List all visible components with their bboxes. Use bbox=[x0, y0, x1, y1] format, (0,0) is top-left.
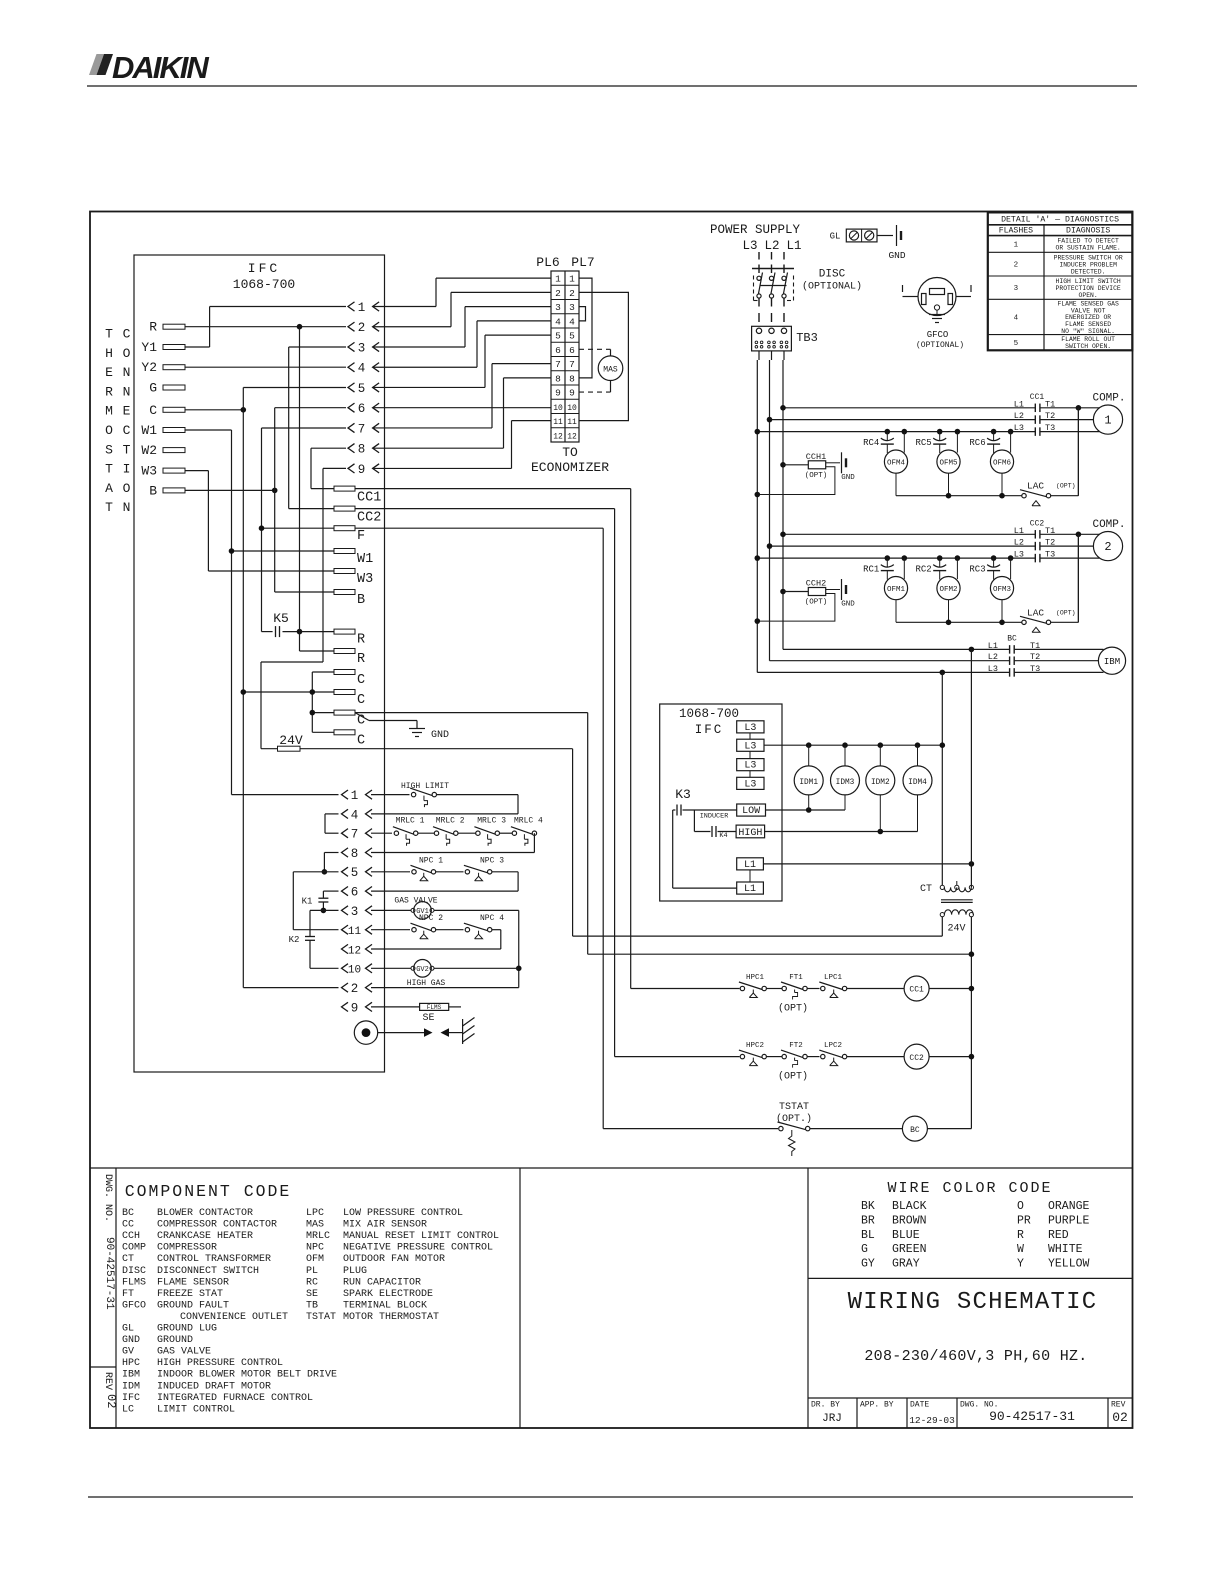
svg-text:E: E bbox=[105, 365, 113, 380]
svg-text:K3: K3 bbox=[675, 787, 691, 802]
svg-text:PL7: PL7 bbox=[571, 255, 594, 270]
svg-text:GV: GV bbox=[122, 1347, 134, 1358]
svg-text:LPC1: LPC1 bbox=[824, 974, 843, 982]
svg-text:L1: L1 bbox=[1014, 399, 1024, 409]
svg-text:GND: GND bbox=[431, 730, 449, 741]
svg-text:RC: RC bbox=[306, 1277, 318, 1288]
svg-text:W1: W1 bbox=[141, 423, 157, 438]
svg-text:6: 6 bbox=[351, 886, 359, 900]
svg-text:MRLC 1: MRLC 1 bbox=[396, 817, 425, 826]
svg-text:IBM: IBM bbox=[1104, 657, 1120, 667]
svg-text:MRLC 3: MRLC 3 bbox=[477, 817, 506, 826]
svg-text:10: 10 bbox=[567, 404, 577, 413]
svg-text:L3: L3 bbox=[744, 741, 756, 752]
svg-text:T: T bbox=[105, 327, 113, 342]
svg-text:9: 9 bbox=[351, 1001, 359, 1015]
svg-text:FLAME SENSOR: FLAME SENSOR bbox=[157, 1277, 229, 1288]
svg-text:9: 9 bbox=[569, 388, 575, 399]
svg-text:ECONOMIZER: ECONOMIZER bbox=[531, 460, 609, 475]
svg-text:FT1: FT1 bbox=[789, 974, 803, 982]
svg-text:1: 1 bbox=[351, 789, 359, 803]
svg-text:FLMS: FLMS bbox=[122, 1277, 146, 1288]
svg-text:RC6: RC6 bbox=[969, 438, 985, 448]
svg-text:12: 12 bbox=[567, 432, 577, 441]
svg-text:IDM2: IDM2 bbox=[871, 779, 890, 787]
svg-text:PLUG: PLUG bbox=[343, 1266, 367, 1277]
svg-text:4: 4 bbox=[351, 808, 359, 822]
svg-text:WIRE COLOR CODE: WIRE COLOR CODE bbox=[887, 1180, 1052, 1197]
svg-text:GY: GY bbox=[861, 1258, 875, 1271]
svg-text:E: E bbox=[123, 404, 131, 419]
svg-text:11: 11 bbox=[553, 418, 563, 427]
svg-text:11: 11 bbox=[567, 418, 577, 427]
svg-text:L2: L2 bbox=[988, 652, 998, 662]
svg-text:OPEN.: OPEN. bbox=[1079, 292, 1098, 299]
svg-text:LPC: LPC bbox=[306, 1208, 324, 1219]
svg-text:REV: REV bbox=[102, 1372, 113, 1390]
svg-text:DISC: DISC bbox=[122, 1266, 146, 1277]
svg-text:A: A bbox=[105, 481, 113, 496]
svg-text:1: 1 bbox=[569, 274, 575, 285]
svg-text:Y: Y bbox=[1017, 1258, 1024, 1271]
svg-text:4: 4 bbox=[555, 316, 561, 327]
svg-text:HIGH: HIGH bbox=[738, 828, 762, 839]
svg-text:L2: L2 bbox=[1014, 538, 1024, 548]
svg-text:GRAY: GRAY bbox=[892, 1258, 920, 1271]
svg-text:S: S bbox=[105, 442, 113, 457]
svg-text:OFM1: OFM1 bbox=[887, 586, 906, 594]
svg-text:G: G bbox=[149, 381, 157, 396]
svg-text:TSTAT: TSTAT bbox=[306, 1312, 336, 1323]
svg-text:FLASHES: FLASHES bbox=[999, 227, 1033, 236]
svg-text:5: 5 bbox=[1014, 340, 1019, 348]
svg-text:CONTROL TRANSFORMER: CONTROL TRANSFORMER bbox=[157, 1254, 271, 1265]
svg-text:HIGH GAS: HIGH GAS bbox=[407, 979, 446, 988]
svg-text:MIX AIR SENSOR: MIX AIR SENSOR bbox=[343, 1220, 427, 1231]
svg-text:DATE: DATE bbox=[910, 1401, 929, 1410]
svg-text:MAS: MAS bbox=[603, 366, 618, 375]
svg-text:1068-700: 1068-700 bbox=[233, 277, 295, 292]
svg-text:GROUND LUG: GROUND LUG bbox=[157, 1324, 217, 1335]
svg-text:GV2: GV2 bbox=[416, 966, 429, 974]
svg-text:6: 6 bbox=[569, 345, 575, 356]
svg-text:CC2: CC2 bbox=[357, 511, 381, 526]
svg-text:W2: W2 bbox=[141, 443, 157, 458]
svg-text:COMP: COMP bbox=[122, 1243, 146, 1254]
svg-text:RC2: RC2 bbox=[915, 565, 931, 575]
svg-text:POWER SUPPLY: POWER SUPPLY bbox=[710, 223, 801, 237]
svg-text:T: T bbox=[105, 462, 113, 477]
svg-text:CRANKCASE HEATER: CRANKCASE HEATER bbox=[157, 1231, 253, 1242]
svg-text:R: R bbox=[357, 633, 365, 648]
svg-text:PURPLE: PURPLE bbox=[1048, 1214, 1090, 1227]
svg-text:O: O bbox=[1017, 1200, 1024, 1213]
svg-text:K4: K4 bbox=[719, 832, 727, 840]
svg-text:ORANGE: ORANGE bbox=[1048, 1200, 1090, 1213]
svg-text:DISCONNECT SWITCH: DISCONNECT SWITCH bbox=[157, 1266, 259, 1277]
svg-text:L1: L1 bbox=[1014, 526, 1024, 536]
svg-text:REV: REV bbox=[1111, 1401, 1126, 1410]
svg-text:2: 2 bbox=[569, 288, 575, 299]
svg-text:TO: TO bbox=[562, 445, 578, 460]
svg-text:C: C bbox=[357, 673, 365, 688]
svg-text:IFC: IFC bbox=[248, 261, 280, 276]
svg-text:6: 6 bbox=[358, 402, 366, 416]
svg-text:(OPTIONAL): (OPTIONAL) bbox=[916, 341, 964, 350]
svg-text:8: 8 bbox=[351, 847, 359, 861]
svg-text:Y1: Y1 bbox=[141, 340, 157, 355]
svg-text:GROUND FAULT: GROUND FAULT bbox=[157, 1300, 229, 1311]
svg-text:RUN CAPACITOR: RUN CAPACITOR bbox=[343, 1277, 421, 1288]
svg-text:L3: L3 bbox=[1014, 423, 1024, 433]
svg-text:2: 2 bbox=[555, 288, 561, 299]
svg-text:90-42517-31: 90-42517-31 bbox=[989, 1409, 1075, 1424]
svg-text:LOW PRESSURE CONTROL: LOW PRESSURE CONTROL bbox=[343, 1208, 463, 1219]
svg-text:R: R bbox=[1017, 1229, 1024, 1242]
svg-text:CC1: CC1 bbox=[357, 491, 381, 506]
svg-text:90-42517-31: 90-42517-31 bbox=[103, 1237, 115, 1310]
svg-text:CC: CC bbox=[122, 1220, 134, 1231]
svg-text:C: C bbox=[123, 327, 131, 342]
svg-text:5: 5 bbox=[358, 382, 366, 396]
svg-text:L3: L3 bbox=[742, 239, 757, 253]
svg-text:DAIKIN: DAIKIN bbox=[112, 50, 209, 85]
svg-text:CC2: CC2 bbox=[909, 1054, 924, 1063]
svg-text:NEGATIVE PRESSURE CONTROL: NEGATIVE PRESSURE CONTROL bbox=[343, 1243, 493, 1254]
svg-text:R: R bbox=[149, 320, 157, 335]
svg-text:DR. BY: DR. BY bbox=[811, 1401, 840, 1410]
svg-text:MRLC: MRLC bbox=[306, 1231, 330, 1242]
svg-text:LOW: LOW bbox=[742, 806, 760, 817]
svg-text:NO "W" SIGNAL.: NO "W" SIGNAL. bbox=[1061, 328, 1115, 335]
svg-text:(OPTIONAL): (OPTIONAL) bbox=[802, 281, 862, 293]
svg-text:GND: GND bbox=[122, 1335, 140, 1346]
svg-text:INTEGRATED FURNACE CONTROL: INTEGRATED FURNACE CONTROL bbox=[157, 1393, 313, 1404]
svg-text:IBM: IBM bbox=[122, 1370, 140, 1381]
svg-text:W: W bbox=[1017, 1243, 1024, 1256]
svg-text:1: 1 bbox=[555, 274, 561, 285]
svg-text:L3: L3 bbox=[1014, 550, 1024, 560]
svg-text:B: B bbox=[149, 483, 157, 498]
svg-text:CC1: CC1 bbox=[1030, 393, 1045, 402]
svg-text:DWG. NO.: DWG. NO. bbox=[102, 1174, 113, 1222]
svg-text:L2: L2 bbox=[1014, 411, 1024, 421]
svg-text:RED: RED bbox=[1048, 1229, 1069, 1242]
svg-text:(OPT): (OPT) bbox=[1056, 483, 1076, 490]
svg-text:GREEN: GREEN bbox=[892, 1243, 927, 1256]
svg-text:BL: BL bbox=[861, 1229, 875, 1242]
svg-text:O: O bbox=[105, 423, 113, 438]
svg-text:M: M bbox=[105, 404, 113, 419]
svg-text:FREEZE STAT: FREEZE STAT bbox=[157, 1289, 223, 1300]
svg-text:K1: K1 bbox=[302, 897, 313, 907]
svg-text:DETECTED.: DETECTED. bbox=[1071, 268, 1106, 275]
svg-text:NPC 4: NPC 4 bbox=[480, 914, 504, 923]
svg-text:OUTDOOR FAN MOTOR: OUTDOOR FAN MOTOR bbox=[343, 1254, 445, 1265]
svg-text:IFC: IFC bbox=[695, 723, 724, 737]
svg-text:7: 7 bbox=[569, 359, 575, 370]
svg-text:N: N bbox=[123, 384, 131, 399]
svg-text:NPC 1: NPC 1 bbox=[419, 856, 443, 865]
svg-text:10: 10 bbox=[348, 965, 361, 977]
svg-text:FT2: FT2 bbox=[789, 1042, 803, 1050]
svg-text:GND: GND bbox=[888, 250, 905, 261]
svg-text:L3: L3 bbox=[744, 723, 756, 734]
svg-text:GL: GL bbox=[122, 1324, 134, 1335]
svg-text:F: F bbox=[357, 529, 365, 544]
svg-text:BLOWER CONTACTOR: BLOWER CONTACTOR bbox=[157, 1208, 253, 1219]
svg-text:24V: 24V bbox=[947, 924, 965, 935]
svg-text:L3: L3 bbox=[988, 664, 998, 674]
svg-text:2: 2 bbox=[351, 982, 359, 996]
svg-text:COMP.: COMP. bbox=[1092, 519, 1125, 531]
svg-text:PR: PR bbox=[1017, 1214, 1031, 1227]
svg-text:MAS: MAS bbox=[306, 1220, 324, 1231]
svg-text:R: R bbox=[357, 652, 365, 667]
svg-text:RC1: RC1 bbox=[863, 565, 879, 575]
svg-text:MRLC 2: MRLC 2 bbox=[436, 817, 465, 826]
svg-text:L3: L3 bbox=[744, 761, 756, 772]
svg-text:N: N bbox=[123, 365, 131, 380]
svg-text:N: N bbox=[123, 500, 131, 515]
svg-text:HPC1: HPC1 bbox=[746, 974, 765, 982]
svg-text:SWITCH OPEN.: SWITCH OPEN. bbox=[1065, 343, 1111, 350]
svg-text:02: 02 bbox=[104, 1394, 118, 1408]
svg-text:O: O bbox=[123, 481, 131, 496]
svg-text:DISC: DISC bbox=[819, 269, 846, 281]
svg-text:TB3: TB3 bbox=[796, 331, 818, 345]
svg-text:7: 7 bbox=[358, 422, 366, 436]
svg-text:TERMINAL BLOCK: TERMINAL BLOCK bbox=[343, 1300, 427, 1311]
svg-text:L1: L1 bbox=[744, 884, 756, 895]
svg-text:H: H bbox=[105, 346, 113, 361]
svg-text:WHITE: WHITE bbox=[1048, 1243, 1083, 1256]
svg-text:K2: K2 bbox=[289, 935, 300, 945]
svg-text:NPC: NPC bbox=[306, 1243, 324, 1254]
svg-text:I: I bbox=[123, 462, 131, 477]
svg-text:GND: GND bbox=[841, 601, 855, 609]
svg-text:2: 2 bbox=[358, 321, 366, 335]
svg-text:W3: W3 bbox=[357, 572, 373, 587]
svg-text:9: 9 bbox=[358, 463, 366, 477]
svg-text:G: G bbox=[861, 1243, 868, 1256]
svg-text:CT: CT bbox=[920, 884, 932, 895]
svg-text:OR SUSTAIN FLAME.: OR SUSTAIN FLAME. bbox=[1056, 245, 1121, 252]
svg-text:5: 5 bbox=[569, 331, 575, 342]
svg-text:GFCO: GFCO bbox=[927, 330, 949, 340]
svg-text:HPC2: HPC2 bbox=[746, 1042, 764, 1050]
svg-text:WIRING SCHEMATIC: WIRING SCHEMATIC bbox=[848, 1289, 1098, 1316]
svg-text:12: 12 bbox=[348, 945, 361, 957]
svg-text:4: 4 bbox=[1014, 314, 1019, 322]
svg-text:11: 11 bbox=[348, 926, 362, 938]
svg-text:W1: W1 bbox=[357, 552, 373, 567]
svg-text:OFM3: OFM3 bbox=[993, 586, 1012, 594]
svg-text:6: 6 bbox=[555, 345, 561, 356]
svg-text:L1: L1 bbox=[786, 239, 801, 253]
svg-text:LAC: LAC bbox=[1027, 481, 1044, 492]
svg-text:BC: BC bbox=[122, 1208, 134, 1219]
svg-text:MANUAL RESET LIMIT CONTROL: MANUAL RESET LIMIT CONTROL bbox=[343, 1231, 499, 1242]
svg-text:IDM3: IDM3 bbox=[836, 779, 855, 787]
svg-text:TB: TB bbox=[306, 1300, 318, 1311]
svg-text:GND: GND bbox=[841, 474, 855, 482]
svg-text:HPC: HPC bbox=[122, 1358, 140, 1369]
svg-text:B: B bbox=[357, 593, 365, 608]
svg-text:T: T bbox=[123, 442, 131, 457]
svg-text:COMPRESSOR: COMPRESSOR bbox=[157, 1243, 217, 1254]
svg-text:IFC: IFC bbox=[122, 1393, 140, 1404]
svg-text:8: 8 bbox=[555, 373, 561, 384]
svg-text:DETAIL 'A' — DIAGNOSTICS: DETAIL 'A' — DIAGNOSTICS bbox=[1001, 215, 1119, 225]
svg-text:TSTAT: TSTAT bbox=[779, 1102, 809, 1113]
svg-text:GAS VALVE: GAS VALVE bbox=[157, 1347, 211, 1358]
svg-text:LIMIT CONTROL: LIMIT CONTROL bbox=[157, 1404, 235, 1415]
svg-text:7: 7 bbox=[351, 828, 359, 842]
svg-text:IDM1: IDM1 bbox=[799, 779, 818, 787]
svg-text:1: 1 bbox=[1014, 241, 1019, 249]
svg-text:OFM6: OFM6 bbox=[993, 460, 1012, 468]
svg-text:L1: L1 bbox=[744, 860, 756, 871]
svg-text:COMP.: COMP. bbox=[1092, 392, 1125, 404]
svg-text:COMPRESSOR CONTACTOR: COMPRESSOR CONTACTOR bbox=[157, 1220, 277, 1231]
svg-text:12-29-03: 12-29-03 bbox=[909, 1415, 955, 1426]
svg-text:5: 5 bbox=[351, 866, 359, 880]
svg-text:BC: BC bbox=[1007, 635, 1017, 644]
svg-text:RC4: RC4 bbox=[863, 438, 879, 448]
svg-text:BC: BC bbox=[910, 1126, 920, 1135]
svg-text:208-230/460V,3 PH,60 HZ.: 208-230/460V,3 PH,60 HZ. bbox=[864, 1348, 1087, 1365]
svg-text:GL: GL bbox=[830, 232, 841, 242]
svg-text:9: 9 bbox=[555, 388, 561, 399]
svg-text:CONVENIENCE OUTLET: CONVENIENCE OUTLET bbox=[180, 1312, 288, 1323]
svg-text:LAC: LAC bbox=[1027, 607, 1044, 618]
svg-text:NPC 2: NPC 2 bbox=[419, 914, 443, 923]
svg-text:L1: L1 bbox=[988, 641, 998, 651]
svg-text:BLUE: BLUE bbox=[892, 1229, 920, 1242]
svg-text:C: C bbox=[357, 693, 365, 708]
svg-text:5: 5 bbox=[555, 331, 561, 342]
svg-text:W3: W3 bbox=[141, 464, 157, 479]
svg-text:CC1: CC1 bbox=[909, 986, 924, 995]
svg-text:L2: L2 bbox=[764, 239, 779, 253]
svg-text:(OPT): (OPT) bbox=[805, 472, 828, 480]
svg-text:K5: K5 bbox=[273, 611, 289, 626]
svg-text:FT: FT bbox=[122, 1289, 134, 1300]
svg-text:GROUND: GROUND bbox=[157, 1335, 193, 1346]
svg-text:3: 3 bbox=[358, 341, 366, 355]
svg-text:LC: LC bbox=[122, 1404, 134, 1415]
svg-text:10: 10 bbox=[553, 404, 563, 413]
svg-text:8: 8 bbox=[358, 443, 366, 457]
svg-text:CC2: CC2 bbox=[1030, 519, 1045, 528]
svg-text:YELLOW: YELLOW bbox=[1048, 1258, 1090, 1271]
svg-text:L3: L3 bbox=[744, 779, 756, 790]
svg-text:BROWN: BROWN bbox=[892, 1214, 927, 1227]
svg-text:INDOOR BLOWER MOTOR BELT DRIVE: INDOOR BLOWER MOTOR BELT DRIVE bbox=[157, 1370, 337, 1381]
svg-text:SE: SE bbox=[422, 1013, 434, 1024]
svg-text:NPC 3: NPC 3 bbox=[480, 856, 504, 865]
svg-text:T: T bbox=[105, 500, 113, 515]
svg-text:HIGH PRESSURE CONTROL: HIGH PRESSURE CONTROL bbox=[157, 1358, 283, 1369]
svg-text:INDUCER: INDUCER bbox=[700, 813, 729, 821]
svg-text:GFCO: GFCO bbox=[122, 1300, 146, 1311]
svg-text:7: 7 bbox=[555, 359, 561, 370]
svg-text:IDM: IDM bbox=[122, 1381, 140, 1392]
svg-text:BLACK: BLACK bbox=[892, 1200, 927, 1213]
svg-text:4: 4 bbox=[358, 362, 366, 376]
svg-text:OFM5: OFM5 bbox=[939, 460, 958, 468]
svg-text:PL: PL bbox=[306, 1266, 318, 1277]
svg-text:C: C bbox=[357, 733, 365, 748]
svg-text:OFM2: OFM2 bbox=[939, 586, 957, 594]
svg-text:MOTOR THERMOSTAT: MOTOR THERMOSTAT bbox=[343, 1312, 439, 1323]
svg-text:OFM4: OFM4 bbox=[887, 460, 906, 468]
svg-text:1: 1 bbox=[1104, 414, 1111, 428]
svg-text:HIGH LIMIT: HIGH LIMIT bbox=[401, 782, 449, 791]
svg-text:(OPT): (OPT) bbox=[1056, 609, 1076, 616]
svg-text:FLMS: FLMS bbox=[427, 1004, 442, 1011]
svg-text:2: 2 bbox=[1104, 540, 1111, 554]
svg-text:SE: SE bbox=[306, 1289, 318, 1300]
svg-text:C: C bbox=[149, 403, 157, 418]
svg-text:APP. BY: APP. BY bbox=[860, 1401, 894, 1410]
svg-text:1: 1 bbox=[358, 301, 366, 315]
svg-text:3: 3 bbox=[351, 905, 359, 919]
svg-text:CCH: CCH bbox=[122, 1231, 140, 1242]
svg-text:3: 3 bbox=[569, 302, 575, 313]
svg-text:SPARK ELECTRODE: SPARK ELECTRODE bbox=[343, 1289, 433, 1300]
svg-text:RC5: RC5 bbox=[915, 438, 931, 448]
svg-text:BK: BK bbox=[861, 1200, 875, 1213]
svg-text:DIAGNOSIS: DIAGNOSIS bbox=[1066, 227, 1110, 236]
svg-text:OFM: OFM bbox=[306, 1254, 324, 1265]
svg-text:(OPT): (OPT) bbox=[778, 1071, 808, 1083]
svg-text:C: C bbox=[123, 423, 131, 438]
svg-text:4: 4 bbox=[569, 316, 575, 327]
svg-text:Y2: Y2 bbox=[141, 360, 157, 375]
svg-text:MRLC 4: MRLC 4 bbox=[514, 817, 543, 826]
svg-text:R: R bbox=[105, 384, 113, 399]
svg-text:RC3: RC3 bbox=[969, 565, 985, 575]
svg-text:JRJ: JRJ bbox=[822, 1413, 842, 1425]
svg-text:3: 3 bbox=[1014, 285, 1019, 293]
svg-text:2: 2 bbox=[1014, 262, 1019, 270]
svg-text:12: 12 bbox=[553, 432, 563, 441]
svg-text:3: 3 bbox=[555, 302, 561, 313]
svg-text:IDM4: IDM4 bbox=[908, 779, 927, 787]
svg-text:CT: CT bbox=[122, 1254, 134, 1265]
svg-text:PL6: PL6 bbox=[536, 255, 559, 270]
svg-text:O: O bbox=[123, 346, 131, 361]
svg-text:COMPONENT CODE: COMPONENT CODE bbox=[125, 1182, 292, 1201]
svg-text:LPC2: LPC2 bbox=[824, 1042, 842, 1050]
svg-text:(OPT): (OPT) bbox=[778, 1003, 808, 1015]
svg-text:(OPT): (OPT) bbox=[805, 599, 828, 607]
svg-text:02: 02 bbox=[1112, 1410, 1128, 1425]
svg-text:1068-700: 1068-700 bbox=[679, 707, 739, 721]
svg-text:INDUCED DRAFT MOTOR: INDUCED DRAFT MOTOR bbox=[157, 1381, 271, 1392]
svg-text:8: 8 bbox=[569, 373, 575, 384]
svg-text:BR: BR bbox=[861, 1214, 875, 1227]
